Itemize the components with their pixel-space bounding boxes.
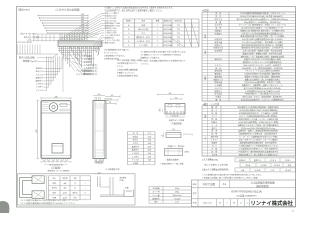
svg-text:〈正面図〉: 〈正面図〉 — [50, 166, 62, 170]
svg-text:4: 4 — [247, 203, 248, 205]
svg-text:100mL/min: 100mL/min — [173, 195, 182, 197]
svg-text:G1/2(15A): G1/2(15A) — [163, 40, 172, 43]
svg-text:浴槽: 浴槽 — [125, 187, 129, 190]
svg-text:可否: 可否 — [73, 177, 77, 180]
svg-text:可: 可 — [74, 182, 76, 185]
svg-text:150: 150 — [98, 172, 101, 174]
svg-text:58: 58 — [109, 102, 111, 104]
svg-text:暖房17.4: 暖房17.4 — [254, 159, 261, 162]
svg-text:φ80: φ80 — [64, 188, 67, 190]
svg-text:1: 1 — [157, 33, 158, 35]
svg-text:PS用: PS用 — [52, 196, 56, 199]
svg-text:可: 可 — [74, 187, 76, 190]
svg-text:R3/4(20A): R3/4(20A) — [163, 32, 172, 35]
svg-text:1/10: 1/10 — [175, 202, 179, 204]
svg-text:7: 7 — [227, 203, 228, 205]
svg-text:リンナイ株式会社: リンナイ株式会社 — [251, 199, 294, 207]
svg-text:φ80: φ80 — [64, 183, 67, 185]
svg-text:58.1kW: 58.1kW — [285, 170, 291, 172]
svg-text:区分: 区分 — [53, 177, 57, 180]
svg-text:2: 2 — [157, 41, 158, 43]
svg-text:適合: 適合 — [288, 164, 292, 167]
svg-text:98: 98 — [161, 135, 163, 137]
svg-text:計58.1: 計58.1 — [286, 159, 291, 162]
svg-text:150: 150 — [175, 97, 178, 99]
svg-text:120: 120 — [172, 129, 175, 131]
svg-text:〈側面図〉: 〈側面図〉 — [93, 160, 105, 164]
svg-text:外形寸法図: 外形寸法図 — [202, 182, 215, 186]
svg-text:ふろ11.6: ふろ11.6 — [269, 159, 276, 162]
svg-text:配管カバー取付範囲: 配管カバー取付範囲 — [24, 36, 40, 39]
svg-text:2022.2.25: 2022.2.25 — [203, 203, 213, 205]
svg-text:17 17 13 62 13 40 25: 17 17 13 62 13 40 25 — [17, 42, 32, 44]
svg-text:φ100: φ100 — [63, 193, 67, 195]
svg-text:リモコン: リモコン — [210, 139, 218, 142]
svg-text:25 120 25: 25 120 25 — [171, 116, 178, 118]
svg-text:寒冷地: 寒冷地 — [52, 187, 57, 190]
svg-text:追焚配管: 追焚配管 — [120, 176, 127, 179]
svg-text:1: 1 — [157, 25, 158, 27]
svg-text:四: 四 — [233, 202, 235, 205]
svg-text:2: 2 — [157, 37, 158, 39]
svg-text:標準: 標準 — [53, 182, 57, 185]
svg-text:T2-0425: T2-0425 — [174, 198, 181, 200]
svg-text:11: 11 — [240, 203, 242, 205]
svg-text:(別売): (別売) — [185, 151, 190, 154]
svg-text:1: 1 — [157, 29, 158, 31]
svg-text:〈上方から見た接続図〉: 〈上方から見た接続図〉 — [54, 8, 82, 12]
svg-text:45: 45 — [159, 110, 161, 112]
svg-text:φ100: φ100 — [63, 197, 67, 199]
svg-text:不可: 不可 — [73, 196, 77, 199]
svg-text:給湯44.1: 給湯44.1 — [239, 159, 246, 162]
svg-text:G1/2(15A): G1/2(15A) — [163, 28, 172, 31]
svg-text:ドレン口: ドレン口 — [36, 89, 43, 92]
svg-text:RUFH-TP245SAW2-6S(13A): RUFH-TP245SAW2-6S(13A) — [231, 190, 262, 193]
svg-text:ドレン口: ドレン口 — [132, 159, 139, 162]
svg-text:58.1kW: 58.1kW — [255, 170, 261, 172]
svg-text:ドレン: ドレン — [211, 144, 217, 147]
svg-text:44.1kW: 44.1kW — [261, 165, 267, 167]
svg-text:1: 1 — [157, 45, 158, 47]
svg-text:48kg: 48kg — [175, 192, 179, 194]
svg-text:46kg: 46kg — [175, 188, 179, 190]
svg-text:ガス給湯暖房用熱源機: ガス給湯暖房用熱源機 — [251, 181, 276, 185]
svg-text:245: 245 — [97, 94, 100, 96]
svg-text:(オプション): (オプション) — [184, 133, 194, 136]
svg-text:R1/2(15A): R1/2(15A) — [163, 44, 172, 47]
svg-text:—: — — [148, 163, 150, 165]
svg-text:G3/4(20A): G3/4(20A) — [163, 36, 172, 39]
svg-text:95: 95 — [110, 99, 112, 101]
svg-text:リモコン: リモコン — [214, 64, 222, 67]
svg-text:58.1kW: 58.1kW — [274, 165, 280, 167]
svg-text:排気アダプター取付穴: 排気アダプター取付穴 — [21, 33, 38, 36]
svg-text:●仕様: ●仕様 — [203, 8, 210, 12]
svg-text:120: 120 — [111, 95, 114, 97]
svg-text:高所: 高所 — [53, 192, 57, 195]
svg-text:G1/2(15A): G1/2(15A) — [163, 24, 172, 27]
svg-text:条件付: 条件付 — [72, 192, 77, 195]
svg-text:排気筒: 排気筒 — [62, 177, 67, 180]
svg-text:(単位:mm): (単位:mm) — [18, 8, 30, 12]
svg-text:(10A): (10A) — [120, 179, 125, 182]
svg-text:440: 440 — [169, 93, 172, 95]
svg-text:(オプション): (オプション) — [27, 39, 37, 42]
